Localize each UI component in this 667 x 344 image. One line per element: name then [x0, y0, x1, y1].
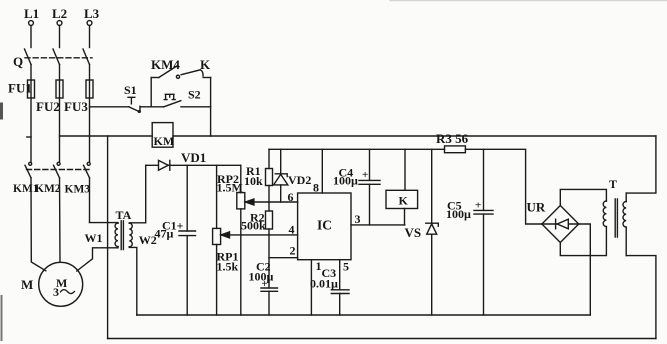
svg-text:Q: Q	[13, 54, 23, 69]
svg-text:+: +	[362, 169, 368, 181]
contact KM2	[54, 162, 61, 178]
wire outer loop bottom edge	[108, 338, 656, 340]
resistor R1	[266, 149, 273, 202]
node L1 terminal	[24, 6, 39, 25]
svg-text:+: +	[475, 200, 481, 212]
wire pin8 (Vcc)	[321, 149, 323, 193]
svg-text:0.01µ: 0.01µ	[310, 277, 338, 291]
contact K (relay contact)	[176, 70, 210, 79]
svg-text:2: 2	[290, 244, 296, 258]
pushbutton S1 (NC stop)	[128, 97, 140, 112]
svg-text:VD2: VD2	[288, 173, 311, 187]
fuse FU3	[86, 80, 93, 98]
svg-text:1.5M: 1.5M	[217, 181, 243, 195]
capacitor C2	[261, 288, 278, 315]
node L2 terminal	[52, 6, 67, 25]
wire pin1 (gnd)	[310, 260, 312, 315]
wire control tap from L3	[90, 106, 129, 108]
wire W2 top	[129, 165, 145, 223]
capacitor C1	[179, 165, 196, 315]
wire KM coil line from L2	[60, 135, 153, 137]
svg-text:1.5k: 1.5k	[217, 260, 239, 274]
svg-text:FU3: FU3	[64, 99, 88, 114]
svg-text:10k: 10k	[244, 174, 263, 188]
wire UR right vertex to common rail	[579, 224, 591, 315]
svg-text:KM4: KM4	[151, 57, 180, 72]
wire pin4 line (RP1 wiper to IC)	[222, 234, 298, 236]
wire branch left vertical	[150, 78, 152, 107]
transformer T core	[615, 199, 617, 237]
wire L1 switch to KM1	[30, 65, 32, 163]
wire pin3 output line	[351, 224, 405, 226]
wire KM2 to motor	[59, 178, 62, 262]
op-amp/timer IC box	[298, 193, 351, 260]
wire branch right vertical	[210, 78, 212, 137]
zener VS	[426, 149, 439, 315]
fuse FU1	[28, 80, 35, 98]
wire S2 to corner	[181, 106, 211, 108]
wire L3 switch to KM3	[89, 65, 91, 163]
resistor R2	[266, 202, 273, 235]
svg-text:47µ: 47µ	[155, 227, 174, 241]
svg-text:S1: S1	[124, 83, 137, 97]
wire W1 bottom to motor	[77, 247, 118, 271]
contact KM4 (NO auxiliary)	[151, 65, 178, 77]
diode VD1	[146, 160, 241, 170]
wire L2 switch to KM2	[59, 65, 61, 163]
+ rail with R3	[269, 149, 542, 224]
svg-text:VS: VS	[405, 225, 422, 240]
transformer TA primary W1 winding	[115, 223, 118, 247]
wire pin6 line (RP2 wiper to IC)	[246, 201, 298, 203]
svg-text:500k: 500k	[241, 219, 266, 233]
wire R2 to C2 node	[268, 235, 270, 288]
resistor R3	[445, 146, 466, 153]
svg-text:+: +	[262, 278, 268, 290]
svg-text:KM2: KM2	[35, 183, 61, 195]
scan artifact left edge lower	[1, 296, 3, 340]
switch Q pole 3	[83, 49, 90, 65]
transformer TA core	[121, 221, 123, 250]
svg-text:VD1: VD1	[181, 150, 206, 165]
svg-text:100µ: 100µ	[333, 174, 358, 188]
wire pin2 line	[269, 257, 298, 259]
svg-text:FU1: FU1	[8, 81, 32, 96]
scan smear top edge	[390, 0, 667, 2]
capacitor C5	[474, 149, 493, 315]
wire T primary top to loop	[625, 193, 627, 256]
pushbutton S2 (NO start)	[164, 94, 181, 107]
capacitor C3	[331, 290, 349, 315]
svg-text:KM3: KM3	[65, 184, 91, 196]
wire S1 to S2	[140, 106, 164, 108]
wire UR bottom vertex to T	[560, 227, 606, 256]
svg-text:L2: L2	[52, 6, 67, 21]
svg-text:W1: W1	[85, 231, 103, 245]
wire L3 drop to switch	[89, 26, 91, 48]
wire UR top vertex to T	[560, 189, 606, 205]
svg-text:K: K	[200, 57, 211, 72]
zener diode VD2	[274, 149, 288, 202]
wire outer loop right edge upper	[626, 136, 656, 193]
svg-text:L1: L1	[24, 6, 39, 21]
wire KM3 to W1 top	[90, 222, 119, 225]
transformer TA secondary W2 winding	[129, 223, 132, 247]
wire outer loop left edge	[107, 136, 109, 339]
svg-text:UR: UR	[527, 200, 546, 215]
svg-text:L3: L3	[84, 6, 100, 21]
wire outer loop right edge lower	[626, 256, 656, 339]
wire L1 drop to switch	[30, 26, 32, 48]
junction tick on L1 line	[27, 136, 31, 138]
motor M circle	[39, 262, 83, 306]
svg-text:5: 5	[343, 260, 349, 274]
svg-text:FU2: FU2	[36, 99, 60, 114]
common rail (bottom of electronics)	[137, 314, 591, 316]
transformer T primary winding	[623, 202, 626, 228]
svg-text:KM: KM	[154, 134, 175, 148]
capacitor C4	[359, 149, 380, 225]
KM contact linkage (dashed)	[27, 169, 92, 171]
svg-text:IC: IC	[317, 218, 332, 233]
wire W2 bottom to common rail	[129, 247, 137, 315]
svg-text:M: M	[21, 277, 33, 292]
svg-text:8: 8	[313, 181, 319, 195]
svg-text:R3 56: R3 56	[436, 131, 469, 146]
wire KM1 to motor	[31, 178, 46, 271]
node L3 terminal	[84, 6, 100, 25]
switch Q pole 2	[53, 49, 60, 65]
bridge UR internal diode	[542, 219, 579, 229]
svg-text:6: 6	[288, 190, 294, 204]
bridge rectifier UR diamond	[542, 206, 579, 243]
contactor coil KM box	[152, 123, 173, 148]
potentiometer RP1	[213, 165, 230, 315]
transformer T secondary winding	[603, 201, 606, 227]
switch Q linkage (dashed)	[25, 57, 92, 59]
wire L2 drop to switch	[59, 26, 61, 48]
potentiometer RP2	[237, 165, 254, 315]
relay coil K box	[386, 149, 418, 225]
svg-text:100µ: 100µ	[446, 207, 471, 221]
scan artifact left edge upper	[0, 104, 3, 118]
wire pin5	[339, 260, 341, 290]
svg-text:S2: S2	[188, 88, 201, 102]
svg-text:K: K	[399, 194, 409, 208]
contact KM1	[25, 162, 32, 178]
svg-text:3: 3	[355, 212, 361, 226]
wire KM3 down	[89, 178, 91, 223]
wire KM coil line to right edge	[173, 135, 656, 137]
svg-text:3: 3	[53, 285, 59, 299]
contact KM3	[84, 162, 91, 178]
svg-text:T: T	[609, 177, 617, 191]
svg-text:TA: TA	[116, 208, 132, 222]
switch Q pole 1	[25, 49, 32, 65]
svg-text:4: 4	[289, 223, 295, 237]
fuse FU2	[56, 80, 63, 98]
